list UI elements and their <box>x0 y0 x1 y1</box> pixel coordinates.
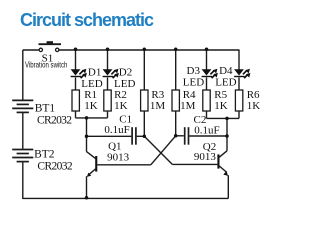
svg-text:1K: 1K <box>114 100 128 112</box>
svg-text:LED: LED <box>215 76 236 88</box>
svg-text:1M: 1M <box>150 100 166 112</box>
svg-text:1K: 1K <box>84 100 98 112</box>
svg-text:1K: 1K <box>214 100 228 112</box>
svg-text:0.1uF: 0.1uF <box>104 124 129 136</box>
svg-text:D1: D1 <box>88 66 101 78</box>
svg-text:1K: 1K <box>247 100 261 112</box>
svg-text:1M: 1M <box>180 100 196 112</box>
svg-text:CR2032: CR2032 <box>37 114 72 126</box>
svg-text:Vibration switch: Vibration switch <box>25 60 68 70</box>
svg-text:CR2032: CR2032 <box>37 160 72 172</box>
svg-text:Circuit schematic: Circuit schematic <box>20 10 154 30</box>
svg-text:9013: 9013 <box>107 151 130 163</box>
svg-text:0.1uF: 0.1uF <box>194 125 219 137</box>
svg-text:BT1: BT1 <box>35 102 56 114</box>
svg-text:LED: LED <box>183 76 204 88</box>
svg-text:BT2: BT2 <box>34 149 55 161</box>
svg-text:9013: 9013 <box>194 151 217 163</box>
svg-text:D2: D2 <box>119 66 132 78</box>
